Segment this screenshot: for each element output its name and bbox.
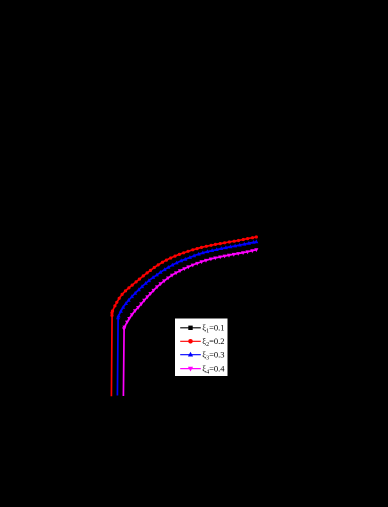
legend row 4	[180, 368, 201, 370]
legend box	[175, 319, 228, 377]
legend row 1	[180, 327, 201, 329]
legend row 2	[180, 340, 201, 342]
series xi4=0.4 magenta curve	[123, 250, 256, 396]
series xi2=0.2 red curve	[111, 237, 256, 396]
series xi3=0.3 blue curve	[117, 242, 256, 396]
legend row 3	[180, 354, 201, 356]
series xi1=0.1 black curve (invisible on black)	[105, 232, 250, 396]
